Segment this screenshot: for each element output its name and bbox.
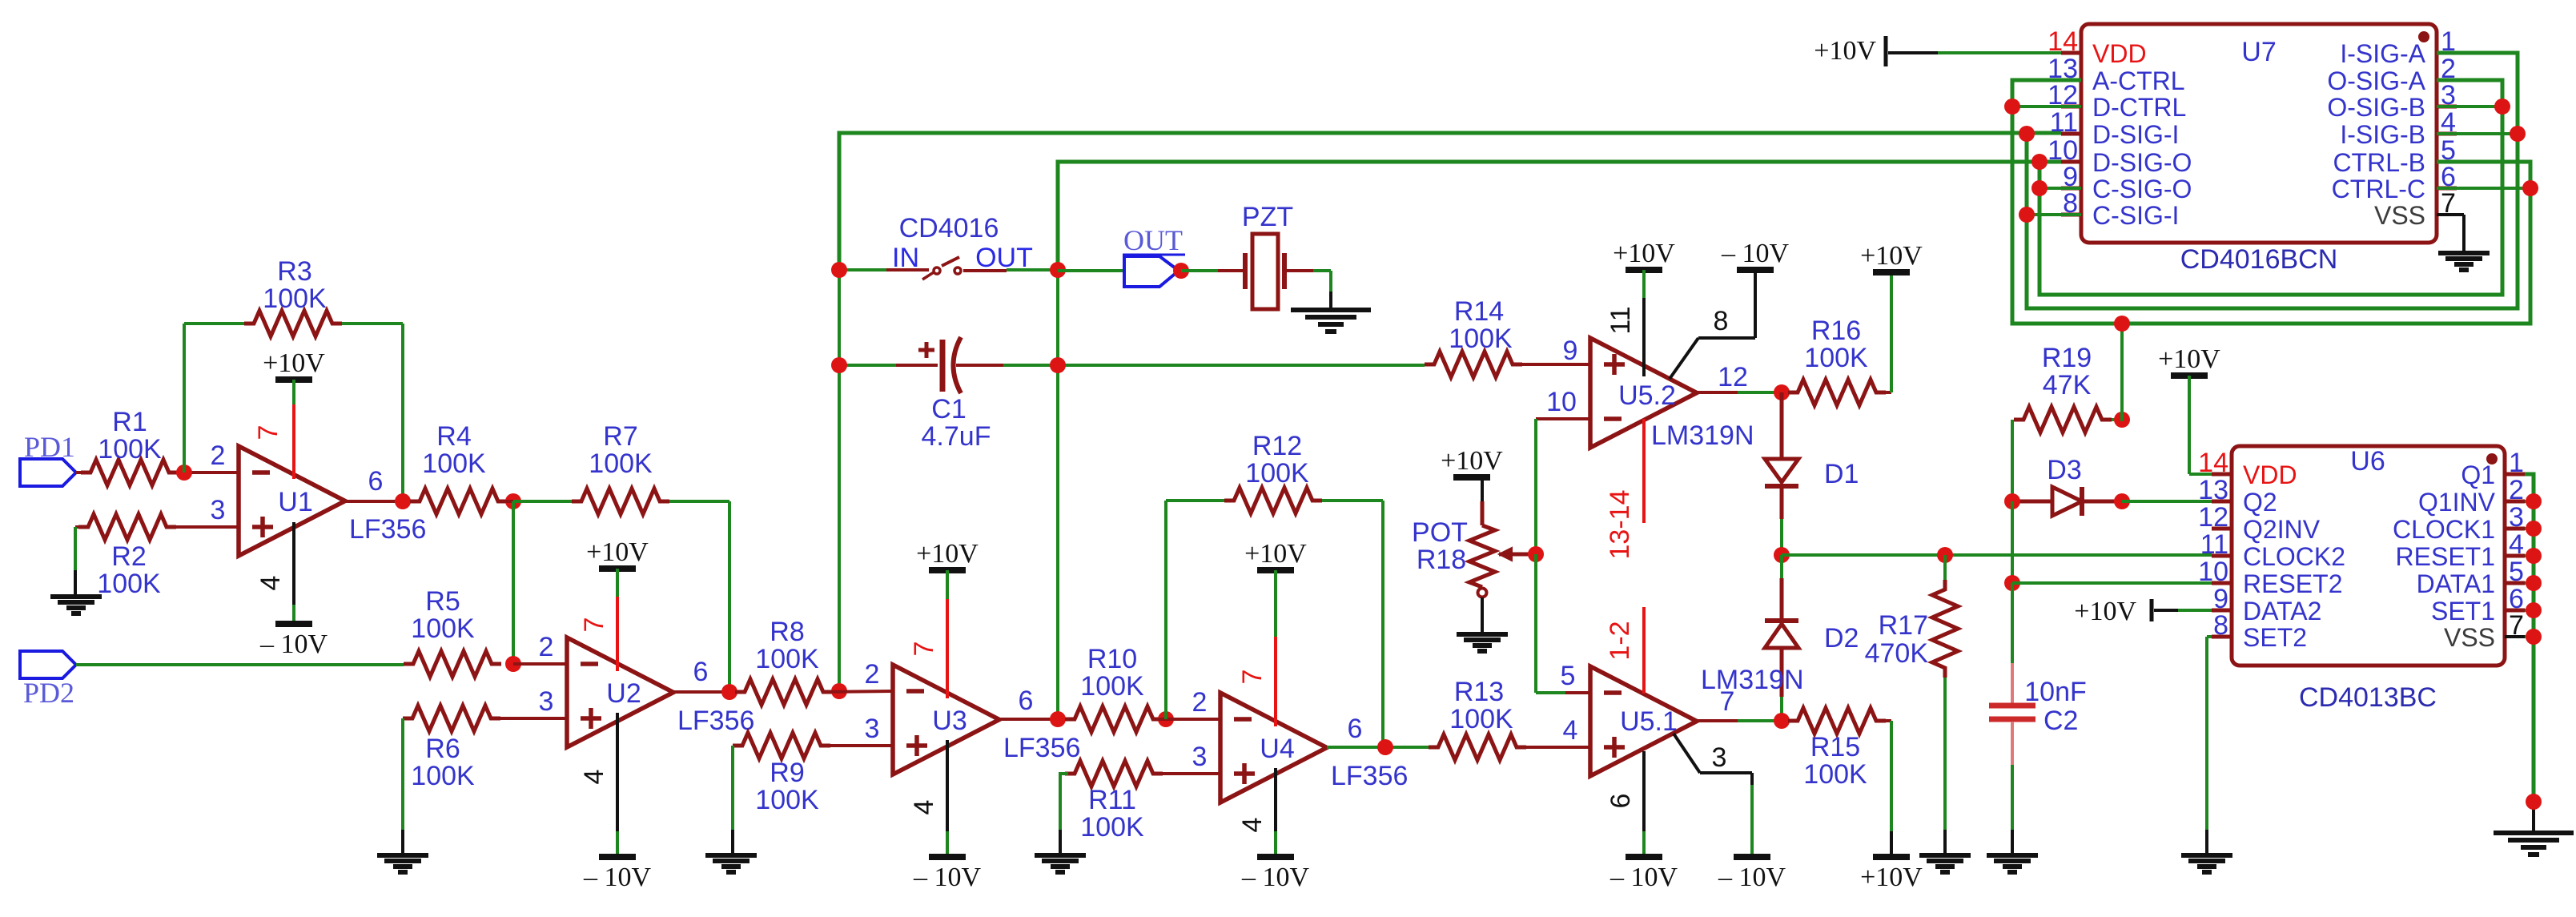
svg-text:D1: D1	[1824, 459, 1859, 489]
pin 3 U6 CLOCK1	[2393, 502, 2525, 544]
label U7	[2241, 37, 2276, 67]
wire R4 right to R7	[498, 500, 572, 503]
pin 6 U7 CTRL-C	[2332, 162, 2457, 203]
svg-text:CLOCK2: CLOCK2	[2243, 542, 2345, 571]
svg-text:U5.1: U5.1	[1620, 706, 1678, 737]
svg-text:4.7uF: 4.7uF	[922, 421, 991, 452]
svg-text:R14: R14	[1454, 296, 1504, 327]
svg-text:100K: 100K	[589, 448, 653, 479]
svg-text:8: 8	[1714, 306, 1729, 336]
resistor R8	[735, 679, 833, 705]
ground R9	[705, 855, 757, 872]
pin 10 U7 D-SIG-O	[2048, 135, 2192, 177]
ground POT R18	[1457, 634, 1508, 651]
svg-text:6: 6	[1605, 794, 1636, 809]
label R11 value	[1080, 785, 1144, 843]
node OUT connector	[1123, 224, 1185, 287]
svg-text:3: 3	[211, 495, 226, 525]
node junction U3 out / OUT vertical	[1050, 711, 1066, 727]
svg-text:R1: R1	[112, 407, 147, 437]
node junction U4 out / R12	[1377, 739, 1393, 755]
svg-text:3: 3	[865, 714, 880, 744]
svg-text:7: 7	[253, 425, 283, 440]
node junction U7 pin 11	[2019, 126, 2035, 142]
svg-text:100K: 100K	[1245, 458, 1309, 489]
svg-text:R2: R2	[111, 541, 146, 572]
svg-text:+10V: +10V	[1860, 863, 1923, 892]
wire R7 right down to U2 output node	[669, 501, 729, 692]
svg-text:R5: R5	[425, 586, 460, 617]
power +10V U7 VDD	[1814, 36, 1886, 66]
wire U2 output	[673, 690, 745, 694]
node junction D1/D2 midpoint	[1774, 547, 1790, 563]
wire U7 CTRL net left (pins 13,12)	[2012, 80, 2530, 324]
svg-text:14: 14	[2198, 448, 2228, 478]
IC U7 CD4016BCN body	[2081, 24, 2437, 243]
label CD4016BCN	[2180, 244, 2338, 275]
svg-text:1: 1	[2509, 448, 2524, 478]
pin 7 wire U3	[909, 570, 947, 698]
pin 9 U7 C-SIG-O	[2061, 162, 2192, 203]
resistor R16	[1788, 380, 1886, 405]
svg-text:– 10V: – 10V	[913, 863, 982, 892]
node junction R17 top	[1937, 547, 1953, 563]
svg-text:14: 14	[2048, 26, 2078, 57]
label R2 value	[97, 541, 161, 599]
wire R12 left vertical	[1166, 501, 1224, 719]
power +10V R16	[1860, 241, 1923, 272]
op-amp U5.1	[1590, 666, 1697, 776]
svg-text:R18: R18	[1417, 545, 1466, 575]
node junction U7 pin 4 I-SIG-B	[2437, 126, 2526, 142]
pin 2 label U2	[539, 632, 554, 662]
svg-text:– 10V: – 10V	[583, 863, 652, 892]
svg-text:VDD: VDD	[2243, 461, 2297, 489]
svg-text:+10V: +10V	[1441, 446, 1503, 476]
svg-text:D-SIG-I: D-SIG-I	[2092, 120, 2179, 149]
svg-text:11: 11	[1605, 306, 1636, 334]
svg-text:100K: 100K	[1449, 704, 1513, 734]
label D2	[1824, 623, 1859, 654]
svg-text:+10V: +10V	[263, 348, 325, 378]
node PD1 input connector	[20, 431, 76, 486]
svg-text:3: 3	[1712, 742, 1727, 773]
pin 3 label U1	[211, 495, 226, 525]
wire D3 to U6 Q2	[2122, 500, 2212, 503]
node junction U6 pin 4	[2526, 548, 2542, 564]
ground SET2	[2181, 855, 2232, 872]
wire R13 to U5.1 pin 4	[1526, 746, 1590, 749]
svg-text:CD4016BCN: CD4016BCN	[2180, 244, 2338, 275]
pin 14 U6 VDD	[2198, 448, 2297, 489]
pin 3 U7 O-SIG-B	[2327, 80, 2457, 122]
svg-text:DATA2: DATA2	[2243, 597, 2321, 625]
resistor R15	[1788, 708, 1886, 734]
wire R3 right to U1 output	[342, 324, 403, 501]
pin 14 U7 VDD	[2048, 26, 2146, 68]
svg-text:+10V: +10V	[1860, 241, 1923, 271]
wire U5.2 pin 10	[1536, 419, 1590, 554]
power -10V U5.2 pin 8	[1721, 239, 1790, 270]
pin 4 wire U4	[1237, 768, 1276, 857]
label R17 value	[1865, 610, 1929, 669]
node junction U2 out / R7	[721, 684, 737, 700]
node junction C1 left	[831, 357, 847, 373]
pin 4 wire U2	[579, 713, 617, 857]
pin 3 label U4	[1192, 742, 1208, 772]
svg-text:C-SIG-I: C-SIG-I	[2092, 201, 2179, 230]
wire R2 left to ground	[74, 527, 77, 596]
wire PD2 to R5	[76, 663, 404, 666]
pin 6 label U4	[1348, 714, 1363, 744]
resistor R2	[75, 514, 239, 540]
pin 4 wire U3	[909, 740, 947, 857]
wire R6 left to ground	[401, 718, 404, 855]
label R7 value	[589, 421, 653, 479]
svg-text:I-SIG-A: I-SIG-A	[2340, 39, 2425, 68]
wire +10V to U6 pin 14	[2189, 376, 2212, 474]
label R6 value	[411, 734, 475, 791]
svg-text:CD4013BC: CD4013BC	[2299, 682, 2437, 713]
svg-text:7: 7	[2441, 188, 2456, 219]
svg-text:5: 5	[1561, 661, 1576, 691]
resistor R10	[1065, 706, 1163, 732]
svg-text:+10V: +10V	[1613, 239, 1675, 268]
op-amp U4	[1220, 693, 1327, 802]
svg-text:+10V: +10V	[916, 539, 979, 569]
switch CD4016 analog switch contacts	[922, 257, 961, 280]
ground U6 right rail	[2494, 833, 2574, 855]
svg-text:C2: C2	[2044, 706, 2078, 736]
pin 13-14 wire U5.2	[1605, 419, 1644, 559]
pin 7 wire U4	[1237, 570, 1276, 726]
svg-text:470K: 470K	[1865, 638, 1929, 669]
label R12 value	[1245, 431, 1309, 489]
wire R9 left to ground	[731, 746, 734, 855]
pin 6 label U2	[693, 657, 709, 687]
svg-text:2: 2	[2509, 475, 2524, 505]
label U4	[1260, 734, 1408, 791]
svg-text:LF356: LF356	[1331, 761, 1408, 791]
pin 7 U7 VSS	[2374, 188, 2464, 230]
node junction ground rail	[2526, 794, 2542, 831]
pin 2 label U3	[865, 659, 880, 690]
label U5.2	[1618, 380, 1754, 451]
pin 13 U7 A-CTRL	[2048, 54, 2184, 95]
svg-text:10: 10	[1546, 387, 1577, 417]
wire R1 to U1 pin 2	[184, 471, 239, 474]
label U6	[2350, 446, 2385, 477]
wire R10 to U4 pin 2	[1153, 718, 1220, 721]
svg-text:U1: U1	[278, 487, 312, 517]
node junction switch-in	[831, 262, 847, 278]
node junction U7 pin 3 O-SIG-B	[2437, 99, 2510, 115]
svg-text:R15: R15	[1810, 732, 1860, 762]
svg-text:O-SIG-B: O-SIG-B	[2327, 93, 2425, 122]
svg-text:R6: R6	[425, 734, 460, 764]
svg-text:PD2: PD2	[23, 677, 74, 709]
node junction U1 out / R3	[395, 493, 411, 509]
wire R19 left vertical	[2011, 420, 2014, 501]
pin 7 wire U2	[579, 569, 617, 671]
label R10 value	[1080, 644, 1144, 702]
svg-text:VSS: VSS	[2374, 201, 2425, 230]
power -10V U5.1 pin 3	[1718, 857, 1786, 892]
svg-text:R11: R11	[1088, 785, 1136, 815]
svg-text:9: 9	[1563, 336, 1578, 366]
pin 4 wire U1	[255, 522, 294, 624]
IC U6 CD4013BC body	[2232, 446, 2505, 666]
svg-text:POT: POT	[1412, 517, 1468, 548]
pin 13 U6 Q2	[2198, 475, 2277, 517]
svg-text:U3: U3	[932, 706, 967, 736]
op-amp U2	[567, 637, 673, 747]
resistor R12	[1224, 488, 1322, 513]
svg-text:7: 7	[579, 617, 609, 633]
power +10V U6 DATA2	[2074, 597, 2152, 626]
svg-text:RESET2: RESET2	[2243, 569, 2342, 598]
pin 10 U6 RESET2	[2198, 557, 2342, 598]
svg-text:R7: R7	[603, 421, 637, 452]
svg-text:100K: 100K	[1080, 812, 1144, 843]
power +10V POT R18	[1441, 446, 1503, 477]
op-amp U3	[893, 665, 999, 774]
node junction U6 pin 6	[2526, 602, 2542, 618]
node junction U7 pin 10	[2031, 154, 2048, 170]
wire +10V to DATA2	[2154, 609, 2212, 612]
capacitor C1	[896, 337, 1003, 393]
svg-text:LF356: LF356	[349, 514, 426, 545]
wire R15 right down to +10V	[1886, 721, 1891, 857]
node junction R5 / R4 vertical	[505, 656, 521, 672]
pin 6 label U1	[368, 466, 384, 497]
op-amp U1	[239, 446, 345, 556]
svg-text:CTRL-C: CTRL-C	[2332, 175, 2425, 203]
svg-text:I-SIG-B: I-SIG-B	[2340, 120, 2425, 149]
node junction D3 left	[2004, 493, 2020, 509]
label R5 value	[411, 586, 475, 644]
wiper arrow R18	[1499, 548, 1536, 561]
svg-text:D2: D2	[1824, 623, 1859, 654]
node junction U7 pin 9	[2031, 180, 2081, 196]
resistor R17	[1932, 555, 1958, 855]
svg-text:100K: 100K	[422, 448, 486, 479]
pin 10 label U5.2	[1546, 387, 1577, 417]
label D1	[1824, 459, 1859, 489]
label U2	[606, 678, 754, 736]
wire U5.2 output	[1697, 391, 1788, 394]
svg-text:R8: R8	[770, 617, 804, 647]
svg-text:CTRL-B: CTRL-B	[2333, 148, 2425, 177]
node junction U6 pin 7	[2526, 629, 2542, 645]
node junction R8 / switch vertical	[831, 683, 847, 699]
power +10V U4 pin 7	[1244, 539, 1307, 570]
svg-text:A-CTRL: A-CTRL	[2092, 66, 2185, 95]
wire R12 right vertical to U4 output	[1322, 501, 1383, 747]
svg-text:D-SIG-O: D-SIG-O	[2092, 148, 2192, 177]
wire comparator output net to U6 CLOCK2	[1782, 553, 2212, 557]
power -10V U3 pin 4	[913, 857, 982, 892]
svg-text:100K: 100K	[755, 644, 819, 674]
svg-text:CLOCK1: CLOCK1	[2393, 515, 2495, 544]
svg-text:10: 10	[2198, 557, 2228, 587]
wire U6 right pins to ground rail	[2525, 474, 2534, 802]
svg-text:3: 3	[1192, 742, 1208, 772]
wire D3 anode vertical to C2	[2011, 501, 2014, 583]
wire C1 row from switch-in vertical to U5.2 pin 9	[839, 270, 1425, 365]
svg-text:100K: 100K	[1804, 343, 1868, 373]
wire R8 to U3 pin 2	[823, 691, 893, 692]
svg-text:Q1: Q1	[2461, 461, 2495, 489]
node junction U7 pin 8	[2019, 207, 2081, 223]
svg-text:RESET1: RESET1	[2396, 542, 2495, 571]
pin 5 label U5.1	[1561, 661, 1576, 691]
label R9 value	[755, 758, 819, 815]
svg-text:1-2: 1-2	[1605, 621, 1635, 660]
svg-text:2: 2	[539, 632, 554, 662]
wire RESET2 horizontal	[2012, 581, 2212, 585]
pin 7 wire U1	[253, 380, 294, 479]
svg-text:DATA1: DATA1	[2417, 569, 2495, 598]
resistor R4	[410, 489, 508, 514]
label U5.1	[1620, 665, 1803, 737]
svg-text:R3: R3	[277, 256, 311, 287]
wire OUT node to connector	[1058, 269, 1124, 272]
pin 8 wire U5.2	[1670, 272, 1755, 379]
label R8 value	[755, 617, 819, 674]
svg-text:100K: 100K	[1080, 671, 1144, 702]
power +10V U3 pin 7	[916, 539, 979, 570]
pin 11 wire U5.2	[1605, 270, 1644, 376]
node junction switch-out / OUT	[1050, 262, 1066, 278]
label R1 value	[98, 407, 162, 465]
svg-text:47K: 47K	[2043, 370, 2092, 400]
pin 2 U6 Q1INV	[2418, 475, 2525, 517]
svg-text:11: 11	[2200, 529, 2228, 560]
label PZT	[1242, 202, 1293, 232]
svg-text:D3: D3	[2047, 455, 2081, 485]
svg-text:R13: R13	[1454, 677, 1504, 707]
svg-text:6: 6	[693, 657, 709, 687]
pin 12 label U5.2	[1718, 362, 1748, 392]
svg-text:12: 12	[1718, 362, 1748, 392]
crystal PZT	[1245, 234, 1313, 309]
wire R14 to U5.2 pin 9	[1522, 363, 1590, 366]
ground PZT	[1291, 310, 1371, 332]
node junction D3 right	[2114, 493, 2130, 509]
svg-text:R4: R4	[436, 421, 471, 452]
pin 2 label U1	[211, 440, 226, 471]
svg-text:LM319N: LM319N	[1701, 665, 1804, 695]
wire U7 O net (pins 10,9)	[2040, 80, 2502, 295]
svg-text:D-CTRL: D-CTRL	[2092, 93, 2186, 122]
svg-text:10nF: 10nF	[2024, 677, 2087, 707]
power -10V U2 pin 4	[583, 857, 652, 892]
pin 9 U6 DATA2	[2212, 584, 2321, 625]
svg-text:PD1: PD1	[24, 431, 75, 463]
pin 2 U7 O-SIG-A	[2327, 54, 2457, 95]
pin 6 wire U5.1	[1605, 751, 1644, 857]
svg-text:6: 6	[1348, 714, 1363, 744]
node junction R19 right	[2114, 412, 2130, 428]
power +10V U2 pin 7	[586, 537, 649, 569]
svg-text:Q2: Q2	[2243, 488, 2277, 517]
pin 5 U6 DATA1	[2417, 557, 2525, 598]
svg-text:6: 6	[368, 466, 384, 497]
svg-text:R17: R17	[1879, 610, 1928, 641]
wire net O-SIG horizontal from OUT node to U7 D-SIG-O	[1058, 162, 2061, 270]
wire OUT lead	[963, 270, 1058, 271]
svg-text:U6: U6	[2350, 446, 2385, 477]
ground U7 VSS	[2438, 253, 2490, 270]
node junction C1 right	[1050, 357, 1066, 373]
svg-text:VSS: VSS	[2444, 623, 2495, 652]
svg-text:+10V: +10V	[2158, 344, 2220, 374]
svg-text:8: 8	[2213, 610, 2228, 641]
resistor R14	[1425, 352, 1522, 377]
power -10V U1 pin 4	[259, 624, 328, 659]
svg-text:4: 4	[579, 770, 609, 785]
svg-text:– 10V: – 10V	[1609, 863, 1678, 892]
svg-text:2: 2	[1192, 687, 1208, 718]
pin 1 U7 I-SIG-A	[2340, 26, 2457, 68]
pin 12 U6 Q2INV	[2198, 502, 2321, 544]
svg-text:LF356: LF356	[677, 706, 754, 736]
svg-text:11: 11	[2050, 107, 2078, 138]
ground R17	[1919, 855, 1971, 872]
power +10V U1 pin 7	[263, 348, 325, 380]
resistor R6	[403, 706, 567, 731]
resistor R11	[1065, 761, 1220, 786]
resistor R7	[572, 489, 669, 514]
node junction U6 pin 5	[2526, 575, 2542, 591]
pin 1 U6 Q1	[2461, 448, 2525, 489]
node junction U5.2 out / R16 / D1	[1774, 384, 1790, 400]
svg-text:3: 3	[539, 686, 554, 717]
wire SET2 to ground	[2207, 637, 2212, 855]
svg-text:U2: U2	[606, 678, 641, 709]
pin 12 U7 D-CTRL	[2048, 80, 2186, 122]
svg-text:OUT: OUT	[1123, 224, 1183, 256]
pin 6 U6 SET1	[2431, 584, 2525, 625]
wire R11 left to ground	[1059, 774, 1068, 855]
svg-text:PZT: PZT	[1242, 202, 1293, 232]
wire switch-in vertical down to U3 pin 2 node	[838, 365, 841, 691]
pin 6 label U3	[1019, 686, 1034, 716]
diode D2	[1765, 555, 1798, 721]
pin 7 label U5.1	[1720, 686, 1735, 717]
resistor R1	[76, 460, 184, 485]
wire U3 output	[999, 718, 1065, 721]
svg-text:4: 4	[909, 800, 939, 815]
resistor R9	[733, 733, 893, 758]
wire OUT to PZT	[1181, 269, 1245, 272]
svg-text:R9: R9	[770, 758, 804, 788]
pin 2 label U4	[1192, 687, 1208, 718]
ground R11	[1035, 855, 1086, 872]
svg-text:LF356: LF356	[1003, 733, 1080, 763]
capacitor C2	[1989, 583, 2035, 855]
svg-text:100K: 100K	[97, 569, 161, 599]
svg-text:4: 4	[255, 576, 286, 591]
wire R4 node down to U2 pin 2 node	[512, 501, 515, 664]
svg-text:R16: R16	[1811, 316, 1861, 346]
label C1 value	[922, 394, 991, 452]
svg-text:Q1INV: Q1INV	[2418, 488, 2496, 517]
label R16 value	[1804, 316, 1868, 373]
power +10V U6 VDD	[2158, 344, 2220, 376]
wire U7 VSS to ground	[2462, 215, 2465, 251]
